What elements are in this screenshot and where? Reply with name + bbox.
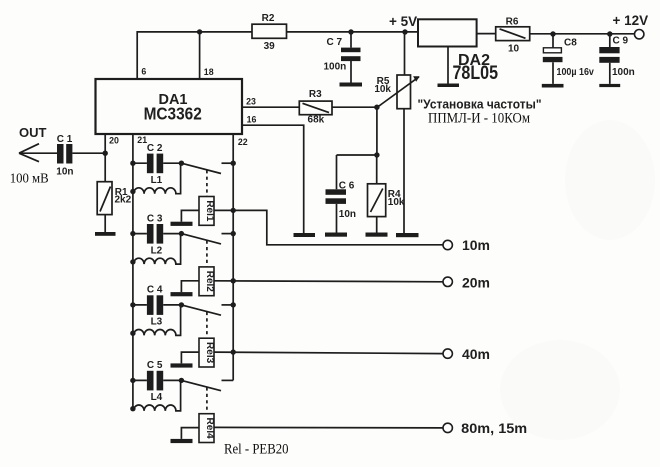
svg-text:C 6: C 6 [339,180,355,191]
svg-text:10: 10 [508,44,520,55]
svg-text:10n: 10n [339,209,356,220]
svg-text:2k2: 2k2 [115,194,132,205]
svg-text:Rel4: Rel4 [204,418,215,440]
svg-text:C 9: C 9 [613,36,629,47]
svg-text:C 3: C 3 [147,213,163,224]
svg-text:L2: L2 [151,245,163,256]
svg-text:100n: 100n [324,62,347,73]
svg-text:10n: 10n [56,167,73,178]
svg-text:22: 22 [238,137,248,147]
svg-text:40m: 40m [462,346,490,362]
svg-text:Rel3: Rel3 [204,342,215,364]
svg-text:Rel - PEB20: Rel - PEB20 [224,441,289,457]
svg-text:C 5: C 5 [147,360,163,371]
svg-text:Rel1: Rel1 [204,200,215,222]
svg-text:C 1: C 1 [57,134,73,145]
svg-text:6: 6 [141,67,146,77]
svg-text:R6: R6 [506,17,519,28]
svg-text:MC3362: MC3362 [144,104,202,124]
svg-text:100µ 16v: 100µ 16v [557,67,595,78]
svg-text:R3: R3 [309,89,322,100]
svg-text:+ 12V: + 12V [613,13,649,28]
svg-text:ППМЛ-И - 10КОм: ППМЛ-И - 10КОм [428,111,530,127]
svg-text:10k: 10k [374,84,391,95]
svg-text:18: 18 [204,67,214,77]
svg-text:+ 5V: + 5V [389,14,417,29]
svg-text:39: 39 [264,41,276,52]
svg-text:C 2: C 2 [147,143,163,154]
svg-text:80m, 15m: 80m, 15m [461,420,527,436]
svg-text:C 4: C 4 [147,285,163,296]
svg-text:68k: 68k [308,115,325,126]
svg-text:23: 23 [246,96,256,106]
svg-text:C 7: C 7 [327,37,343,48]
svg-text:L1: L1 [151,175,163,186]
svg-text:21: 21 [137,135,147,145]
svg-text:"Установка частоты": "Установка частоты" [418,96,542,111]
svg-text:OUT: OUT [19,125,47,140]
svg-text:L4: L4 [151,392,163,403]
svg-text:100n: 100n [612,67,635,78]
svg-text:10m: 10m [462,237,490,253]
svg-text:L3: L3 [151,317,163,328]
svg-text:R2: R2 [262,13,275,24]
svg-text:100 мВ: 100 мВ [10,171,49,186]
svg-text:20m: 20m [462,274,490,290]
svg-text:16: 16 [247,115,257,125]
svg-text:10k: 10k [388,197,405,208]
svg-text:C8: C8 [564,38,577,49]
svg-text:20: 20 [109,136,119,146]
svg-text:Rel2: Rel2 [204,271,215,293]
svg-text:78L05: 78L05 [453,63,499,84]
